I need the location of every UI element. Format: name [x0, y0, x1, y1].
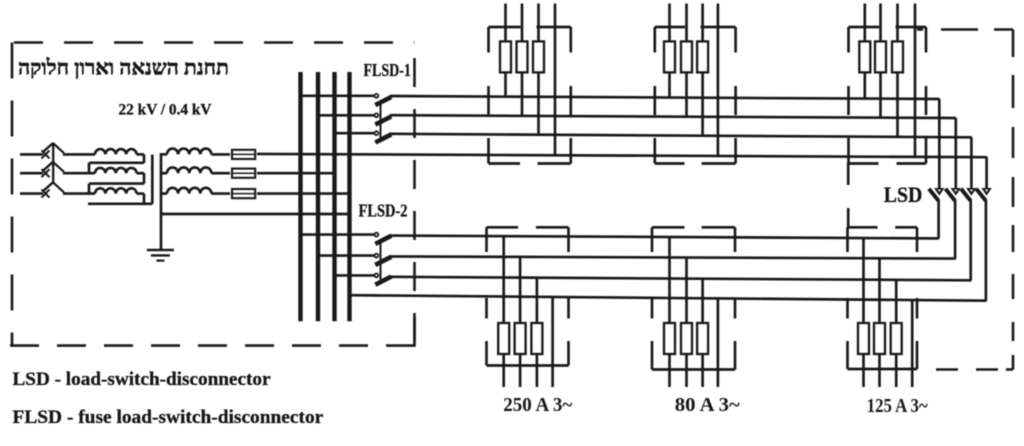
svg-text:22 kV / 0.4 kV: 22 kV / 0.4 kV: [119, 101, 212, 119]
svg-text:תחנת השנאה וארון חלוקה: תחנת השנאה וארון חלוקה: [18, 56, 229, 80]
svg-text:LSD - load-switch-disconnector: LSD - load-switch-disconnector: [13, 369, 271, 390]
svg-text:FLSD - fuse load-switch-discon: FLSD - fuse load-switch-disconnector: [13, 407, 324, 428]
svg-text:FLSD-2: FLSD-2: [359, 200, 408, 220]
svg-text:125 A 3~: 125 A 3~: [867, 396, 929, 417]
svg-text:FLSD-1: FLSD-1: [363, 60, 411, 80]
svg-text:80 A 3~: 80 A 3~: [675, 395, 741, 416]
svg-text:LSD: LSD: [884, 182, 923, 207]
svg-text:250 A 3~: 250 A 3~: [503, 395, 573, 416]
